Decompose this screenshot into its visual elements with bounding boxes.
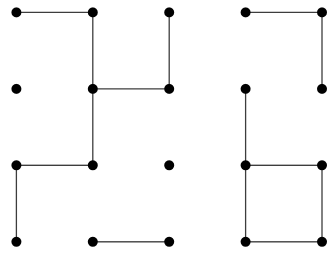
node D3 — [241, 160, 251, 170]
node D2 — [241, 84, 251, 94]
wire D2-D3 — [245, 89, 247, 165]
node D4 — [241, 237, 251, 247]
node C1 — [164, 7, 174, 17]
wire E1-E2 — [321, 12, 323, 89]
node C3 — [164, 160, 174, 170]
node B4 — [88, 237, 98, 247]
wire D3-D4 — [245, 165, 247, 242]
wire C1-C2 — [168, 12, 170, 89]
node D1 — [241, 7, 251, 17]
node E1 — [317, 7, 327, 17]
node E4 — [317, 237, 327, 247]
node B1 — [88, 7, 98, 17]
wire D3-E3 — [246, 164, 322, 166]
wire B4-C4 — [93, 241, 169, 243]
wire A1-B1 — [16, 11, 92, 13]
node A4 — [11, 237, 21, 247]
wire B1-B2 — [92, 12, 94, 89]
node A2 — [11, 84, 21, 94]
node E2 — [317, 84, 327, 94]
node E3 — [317, 160, 327, 170]
wire A3-A4 — [15, 165, 17, 242]
wire A3-B3 — [16, 164, 92, 166]
node A1 — [11, 7, 21, 17]
node B2 — [88, 84, 98, 94]
node C2 — [164, 84, 174, 94]
node B3 — [88, 160, 98, 170]
wire D4-E4 — [246, 241, 322, 243]
wire D1-E1 — [246, 11, 322, 13]
node A3 — [11, 160, 21, 170]
wire B2-C2 — [93, 88, 169, 90]
wire E3-E4 — [321, 165, 323, 242]
wire B2-B3 — [92, 89, 94, 165]
node C4 — [164, 237, 174, 247]
